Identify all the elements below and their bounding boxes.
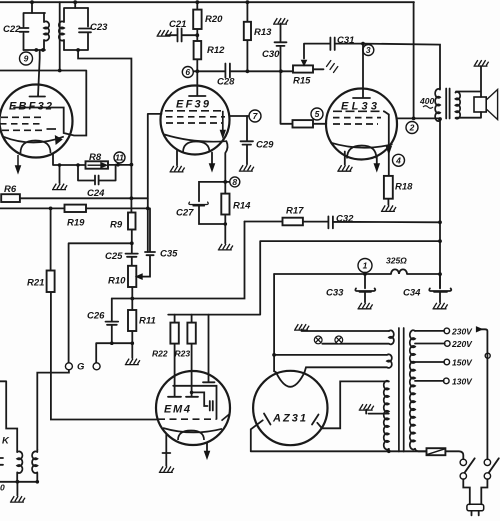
svg-text:R11: R11 <box>139 316 156 327</box>
svg-text:EBF32: EBF32 <box>9 101 52 113</box>
svg-text:C28: C28 <box>217 77 235 88</box>
svg-text:G: G <box>77 362 85 373</box>
svg-text:C34: C34 <box>403 288 421 299</box>
svg-text:K: K <box>2 436 10 447</box>
svg-text:2: 2 <box>409 123 415 133</box>
svg-text:R6: R6 <box>4 184 17 195</box>
svg-text:R21: R21 <box>27 278 44 289</box>
svg-text:C29: C29 <box>256 140 274 151</box>
svg-text:R20: R20 <box>205 14 223 25</box>
svg-text:R13: R13 <box>254 27 272 38</box>
svg-text:C21: C21 <box>169 19 186 30</box>
svg-text:400: 400 <box>419 96 434 106</box>
svg-text:5: 5 <box>315 109 320 119</box>
svg-text:R12: R12 <box>207 45 225 56</box>
svg-text:R15: R15 <box>293 76 311 87</box>
svg-text:1: 1 <box>363 261 368 271</box>
svg-text:C33: C33 <box>326 288 344 299</box>
svg-text:8: 8 <box>232 177 237 187</box>
svg-text:C26: C26 <box>87 311 105 322</box>
svg-text:AZ31: AZ31 <box>272 413 306 425</box>
svg-text:R8: R8 <box>89 152 102 163</box>
svg-text:R14: R14 <box>233 201 251 212</box>
svg-text:R22: R22 <box>152 349 168 359</box>
svg-text:325Ω: 325Ω <box>386 256 407 266</box>
svg-text:R9: R9 <box>110 220 123 231</box>
svg-text:C30: C30 <box>262 49 280 60</box>
svg-text:9: 9 <box>24 54 29 64</box>
svg-text:6: 6 <box>185 67 190 77</box>
svg-text:C27: C27 <box>176 208 194 219</box>
svg-text:C31: C31 <box>337 35 354 46</box>
svg-text:C35: C35 <box>160 249 178 260</box>
svg-text:C32: C32 <box>336 214 354 225</box>
svg-text:220V: 220V <box>451 339 473 349</box>
svg-text:C23: C23 <box>90 22 108 33</box>
svg-text:R10: R10 <box>108 276 126 287</box>
svg-text:C22: C22 <box>3 24 21 35</box>
svg-text:EM4: EM4 <box>164 404 190 416</box>
svg-text:R23: R23 <box>175 349 191 359</box>
svg-text:230V: 230V <box>451 327 473 337</box>
svg-text:11: 11 <box>115 153 124 163</box>
svg-text:0: 0 <box>0 483 5 493</box>
svg-text:130V: 130V <box>452 377 473 387</box>
svg-text:3: 3 <box>366 45 371 55</box>
svg-text:C24: C24 <box>87 188 105 199</box>
svg-text:R19: R19 <box>67 218 85 229</box>
svg-text:C25: C25 <box>105 251 123 262</box>
svg-text:R17: R17 <box>286 206 304 217</box>
svg-text:4: 4 <box>395 156 401 166</box>
svg-text:150V: 150V <box>452 358 473 368</box>
svg-text:R18: R18 <box>395 182 413 193</box>
